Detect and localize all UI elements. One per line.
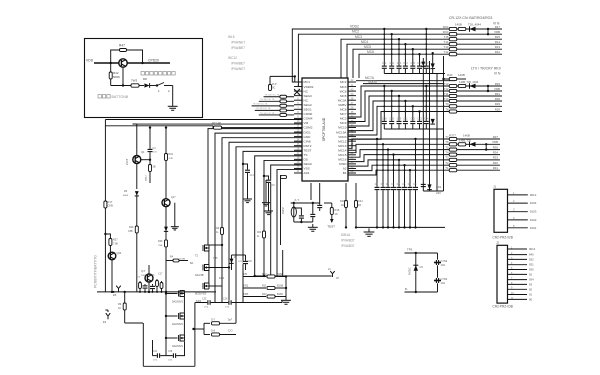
svg-text:DIG1: DIG1 xyxy=(304,130,312,134)
svg-text:R23: R23 xyxy=(215,228,220,230)
svg-text:92: 92 xyxy=(529,272,533,276)
svg-text:/PVA/BE7: /PVA/BE7 xyxy=(231,62,245,66)
svg-text:CPD20: CPD20 xyxy=(148,59,159,63)
svg-text:934: 934 xyxy=(529,278,534,282)
svg-text:9101: 9101 xyxy=(530,226,537,230)
svg-text:/PVA/BE7: /PVA/BE7 xyxy=(231,46,245,50)
svg-text:C15: C15 xyxy=(271,185,276,187)
svg-text:SEG0: SEG0 xyxy=(304,162,313,166)
svg-text:R28: R28 xyxy=(495,107,501,111)
svg-text:MC3: MC3 xyxy=(355,35,362,39)
svg-text:MC7: MC7 xyxy=(340,112,347,116)
svg-text:T1: T1 xyxy=(445,166,449,170)
svg-text:C18: C18 xyxy=(382,118,387,121)
svg-text:C7N2: C7N2 xyxy=(441,277,448,281)
svg-text:R31: R31 xyxy=(495,92,501,96)
svg-text:146B_T26: 146B_T26 xyxy=(459,139,472,143)
svg-text:T26_4044: T26_4044 xyxy=(468,23,481,27)
svg-text:COM4: COM4 xyxy=(304,117,313,121)
svg-text:SPCF708-A4D: SPCF708-A4D xyxy=(322,117,326,141)
svg-text:4B40: 4B40 xyxy=(123,195,129,197)
svg-text:VDB: VDB xyxy=(492,140,498,144)
svg-text:C31: C31 xyxy=(153,351,158,353)
svg-text:TEST: TEST xyxy=(327,225,335,229)
svg-text:B1: B1 xyxy=(343,171,347,175)
svg-text:931: 931 xyxy=(529,263,534,267)
svg-text:MC13: MC13 xyxy=(338,144,347,148)
svg-text:C5: C5 xyxy=(420,265,424,269)
svg-text:SEG3: SEG3 xyxy=(304,94,313,98)
svg-text:VI N: VI N xyxy=(494,72,501,76)
svg-text:932: 932 xyxy=(529,257,534,261)
svg-text:CKB: CKB xyxy=(108,204,114,208)
svg-text:T/B3: T/B3 xyxy=(243,293,249,296)
svg-text:C20: C20 xyxy=(397,118,402,121)
svg-text:4C: 4C xyxy=(341,204,344,207)
svg-text:CIN8: CIN8 xyxy=(304,139,311,143)
svg-text:104: 104 xyxy=(441,263,446,267)
svg-text:Q1: Q1 xyxy=(141,150,145,154)
svg-text:M2S/VSS: M2S/VSS xyxy=(195,292,207,296)
svg-text:R14: R14 xyxy=(495,40,501,44)
svg-text:C26: C26 xyxy=(223,298,228,301)
svg-text:CR2-PRZ-03B: CR2-PRZ-03B xyxy=(492,305,513,309)
svg-text:TEST: TEST xyxy=(304,148,312,152)
svg-text:TS: TS xyxy=(304,153,308,157)
svg-text:SEG2: SEG2 xyxy=(304,103,313,107)
svg-text:COM2: COM2 xyxy=(304,126,313,130)
svg-text:T8: T8 xyxy=(445,107,449,111)
svg-text:104: 104 xyxy=(441,281,446,285)
svg-text:9A2/6S/S: 9A2/6S/S xyxy=(172,322,183,326)
svg-text:C24: C24 xyxy=(424,118,429,121)
svg-text:/PVA/B37: /PVA/B37 xyxy=(341,244,355,248)
svg-text:Q17: Q17 xyxy=(171,196,176,199)
svg-text:R18F: R18F xyxy=(340,200,347,203)
svg-text:C16: C16 xyxy=(417,62,422,65)
svg-text:6051A: 6051A xyxy=(341,233,351,237)
svg-text:ZD1: ZD1 xyxy=(436,185,442,189)
svg-text:CR-12X CN: BAT/RO4/RO3: CR-12X CN: BAT/RO4/RO3 xyxy=(449,16,492,20)
svg-text:R-P: R-P xyxy=(272,82,277,86)
svg-text:MC2: MC2 xyxy=(352,30,359,34)
svg-text:24V: 24V xyxy=(436,191,441,195)
svg-text:C12: C12 xyxy=(390,62,395,65)
svg-text:VDBV: VDBV xyxy=(338,103,347,107)
svg-text:5p?: 5p? xyxy=(228,319,233,322)
svg-text:R47: R47 xyxy=(119,44,125,48)
svg-text:TR5: TR5 xyxy=(213,257,218,260)
svg-text:7.8K: 7.8K xyxy=(113,243,118,246)
svg-text:T2: T2 xyxy=(445,161,449,165)
svg-text:1K: 1K xyxy=(335,212,338,216)
svg-text:T12: T12 xyxy=(444,87,449,91)
svg-text:KIND: KIND xyxy=(339,162,347,166)
svg-text:T3: T3 xyxy=(445,156,449,160)
svg-text:T12: T12 xyxy=(444,50,449,54)
svg-text:R40: R40 xyxy=(447,73,453,77)
svg-text:C24: C24 xyxy=(358,200,363,203)
svg-text:B16K: B16K xyxy=(277,293,283,296)
svg-text:91: 91 xyxy=(529,293,533,297)
svg-text:E3: E3 xyxy=(103,320,107,324)
svg-text:CR2-PRZ-02B: CR2-PRZ-02B xyxy=(492,236,513,240)
svg-text:T/B: T/B xyxy=(243,273,247,276)
svg-text:92: 92 xyxy=(529,287,533,291)
svg-text:R29: R29 xyxy=(129,226,134,229)
svg-text:R33: R33 xyxy=(493,156,499,160)
svg-text:J1: J1 xyxy=(493,185,497,189)
svg-text:RST2: RST2 xyxy=(304,144,312,148)
svg-text:C43: C43 xyxy=(150,274,155,277)
svg-text:D-7: D-7 xyxy=(211,319,216,322)
svg-text:GND: GND xyxy=(304,135,312,139)
svg-text:B-: B- xyxy=(405,287,408,291)
svg-text:MC12: MC12 xyxy=(338,139,347,143)
svg-text:VI N: VI N xyxy=(493,22,500,26)
svg-text:C38: C38 xyxy=(168,351,173,353)
svg-text:R31 4R: R31 4R xyxy=(212,121,221,125)
svg-text:/PVA/NE7: /PVA/NE7 xyxy=(231,67,245,71)
svg-text:Q24: Q24 xyxy=(117,252,122,255)
svg-text:T10: T10 xyxy=(444,97,449,101)
svg-text:MC3: MC3 xyxy=(340,85,347,89)
svg-text:/PVA/B37: /PVA/B37 xyxy=(341,239,355,243)
svg-text:MC6: MC6 xyxy=(367,50,374,54)
svg-text:930: 930 xyxy=(529,268,534,272)
svg-text:J2: J2 xyxy=(496,241,500,245)
svg-text:T5: T5 xyxy=(445,145,449,149)
svg-text:TP5: TP5 xyxy=(407,248,413,252)
svg-text:9V/DC: 9V/DC xyxy=(408,267,412,275)
svg-text:T6: T6 xyxy=(445,140,449,144)
svg-text:R22: R22 xyxy=(257,232,262,234)
svg-text:TR 7A 9 4C 7B: TR 7A 9 4C 7B xyxy=(265,94,280,97)
svg-text:T15: T15 xyxy=(444,35,449,39)
svg-text:C25: C25 xyxy=(202,298,207,301)
svg-text:C15: C15 xyxy=(411,62,416,65)
svg-text:C11: C11 xyxy=(382,62,387,65)
svg-text:CIR30: CIR30 xyxy=(304,112,313,116)
svg-text:E5: E5 xyxy=(113,293,117,297)
svg-text:9014: 9014 xyxy=(529,247,536,251)
svg-text:T4: T4 xyxy=(445,150,449,154)
svg-text:T9: T9 xyxy=(445,102,449,106)
svg-text:WC12: WC12 xyxy=(228,56,237,60)
svg-text:WL5: WL5 xyxy=(228,35,235,39)
svg-text:C14: C14 xyxy=(250,175,255,177)
svg-text:LTX / TR/CRY RK0: LTX / TR/CRY RK0 xyxy=(471,67,501,71)
svg-text:B10B: B10B xyxy=(277,285,283,288)
svg-text:C29: C29 xyxy=(248,261,253,263)
svg-text:1P: 1P xyxy=(336,277,339,280)
svg-text:T11: T11 xyxy=(444,92,449,96)
svg-text:R377: R377 xyxy=(449,134,456,138)
svg-text:AD1: AD1 xyxy=(304,171,310,175)
svg-text:T13: T13 xyxy=(444,82,449,86)
svg-text:MC1: MC1 xyxy=(304,80,311,84)
svg-text:R27: R27 xyxy=(113,239,118,242)
svg-text:MC5: MC5 xyxy=(340,94,347,98)
svg-text:2SC5: 2SC5 xyxy=(126,158,129,165)
svg-text:BATTGNB: BATTGNB xyxy=(112,95,129,99)
svg-text:140B: 140B xyxy=(455,23,462,27)
svg-text:VDB: VDB xyxy=(494,30,500,34)
svg-text:1R: 1R xyxy=(358,204,361,207)
svg-text:C23: C23 xyxy=(417,118,422,121)
svg-text:WC8: WC8 xyxy=(340,89,347,93)
svg-text:C5B: C5B xyxy=(128,230,133,233)
svg-text:C13: C13 xyxy=(397,62,402,65)
svg-text:R13: R13 xyxy=(495,45,501,49)
svg-text:R34: R34 xyxy=(493,150,499,154)
svg-text:MC16: MC16 xyxy=(338,158,347,162)
svg-text:C5B: C5B xyxy=(158,245,163,247)
svg-text:T14: T14 xyxy=(444,40,449,44)
svg-text:R15: R15 xyxy=(495,35,501,39)
svg-text:9A2/6S/S: 9A2/6S/S xyxy=(172,300,183,304)
svg-text:MC15: MC15 xyxy=(338,153,347,157)
svg-text:R33: R33 xyxy=(495,82,501,86)
svg-text:R29: R29 xyxy=(495,102,501,106)
svg-text:VDD2: VDD2 xyxy=(350,25,359,29)
svg-text:9A/12: 9A/12 xyxy=(145,175,148,181)
svg-text:R12: R12 xyxy=(495,50,501,54)
svg-text:MC3A: MC3A xyxy=(338,98,348,102)
svg-text:VM: VM xyxy=(304,121,309,125)
svg-text:T/B2: T/B2 xyxy=(243,285,249,288)
svg-text:MC10: MC10 xyxy=(338,126,347,130)
svg-text:3B: 3B xyxy=(153,166,156,169)
svg-text:MC9: MC9 xyxy=(340,121,347,125)
svg-text:MC8: MC8 xyxy=(340,108,347,112)
svg-text:146B: 146B xyxy=(463,134,470,138)
svg-text:R19: R19 xyxy=(169,153,174,156)
svg-text:VSS: VSS xyxy=(304,167,310,171)
svg-text:4.9K: 4.9K xyxy=(169,158,174,160)
svg-text:9104: 9104 xyxy=(530,201,537,205)
svg-text:VDB: VDB xyxy=(494,87,500,91)
svg-text:R30: R30 xyxy=(495,97,501,101)
svg-text:RO3: RO3 xyxy=(443,30,449,34)
svg-text:2W03: 2W03 xyxy=(141,275,147,277)
svg-text:140B_T26_4046: 140B_T26_4046 xyxy=(459,80,479,84)
svg-text:R12: R12 xyxy=(262,293,267,296)
svg-text:R37: R37 xyxy=(493,135,499,139)
svg-text:DS: DS xyxy=(304,158,308,162)
svg-text:TR 7A 9 4C 7B: TR 7A 9 4C 7B xyxy=(253,103,268,106)
svg-text:9A2/6S/S: 9A2/6S/S xyxy=(172,344,183,348)
svg-text:/PVA/NE7: /PVA/NE7 xyxy=(231,41,245,45)
svg-text:PC/B6/T/TF/BATT/TG: PC/B6/T/TF/BATT/TG xyxy=(94,255,98,288)
svg-text:7W3: 7W3 xyxy=(131,79,138,83)
svg-text:Q P: Q P xyxy=(141,270,146,273)
svg-text:A2: A2 xyxy=(343,167,347,171)
svg-text:T13: T13 xyxy=(444,45,449,49)
svg-text:R10: R10 xyxy=(262,273,267,276)
svg-text:R35: R35 xyxy=(493,145,499,149)
svg-text:R39: R39 xyxy=(158,240,163,243)
svg-text:R17: R17 xyxy=(108,200,113,204)
svg-text:9A2/4B: 9A2/4B xyxy=(195,273,204,277)
svg-text:9C: 9C xyxy=(272,86,275,90)
svg-text:1K: 1K xyxy=(118,307,121,310)
svg-text:RO4: RO4 xyxy=(443,25,449,29)
svg-text:140B: 140B xyxy=(458,73,465,77)
svg-text:NC: NC xyxy=(304,98,309,102)
svg-text:R32: R32 xyxy=(493,161,499,165)
svg-text:D-8: D-8 xyxy=(211,330,216,333)
svg-text:TR 7A 9 4C 7B: TR 7A 9 4C 7B xyxy=(260,112,275,115)
svg-text:VDD3: VDD3 xyxy=(368,80,377,84)
svg-text:X-T: X-T xyxy=(294,198,299,202)
svg-text:SEG1: SEG1 xyxy=(304,108,313,112)
svg-text:MC19A: MC19A xyxy=(336,130,347,134)
svg-text:MC4: MC4 xyxy=(361,40,368,44)
svg-text:C7N2: C7N2 xyxy=(441,259,448,263)
svg-text:940: 940 xyxy=(529,253,534,257)
svg-text:TR 7A 9 4C 7B: TR 7A 9 4C 7B xyxy=(260,98,275,101)
svg-text:90: 90 xyxy=(529,297,533,301)
svg-text:C17: C17 xyxy=(158,273,163,276)
svg-text:C21: C21 xyxy=(403,118,408,121)
svg-text:C19: C19 xyxy=(390,118,395,121)
svg-text:NC: NC xyxy=(304,89,309,93)
svg-text:C/O: C/O xyxy=(228,330,233,333)
svg-text:MC5: MC5 xyxy=(364,45,371,49)
svg-text:VDD: VDD xyxy=(86,59,94,63)
svg-text:TR 7A 9 4C 7B: TR 7A 9 4C 7B xyxy=(256,107,271,110)
svg-text:9102: 9102 xyxy=(530,218,537,222)
svg-text:R31: R31 xyxy=(493,166,499,170)
svg-text:MC3: MC3 xyxy=(340,117,347,121)
svg-text:R11: R11 xyxy=(262,285,267,288)
svg-text:9103: 9103 xyxy=(530,210,537,214)
svg-text:9014: 9014 xyxy=(530,193,537,197)
svg-text:C22: C22 xyxy=(411,118,416,121)
svg-text:MC14: MC14 xyxy=(338,148,347,152)
svg-text:MC2: MC2 xyxy=(340,80,347,84)
svg-text:93: 93 xyxy=(529,282,533,286)
svg-text:D8: D8 xyxy=(143,77,147,81)
svg-text:R15: R15 xyxy=(335,208,340,212)
svg-text:C14: C14 xyxy=(403,62,408,65)
svg-text:VDD02: VDD02 xyxy=(304,85,314,89)
svg-text:9403: 9403 xyxy=(219,278,225,280)
svg-text:VDD3: VDD3 xyxy=(338,135,347,139)
svg-text:500K: 500K xyxy=(113,75,120,79)
svg-text:4MHZ: 4MHZ xyxy=(282,207,285,214)
